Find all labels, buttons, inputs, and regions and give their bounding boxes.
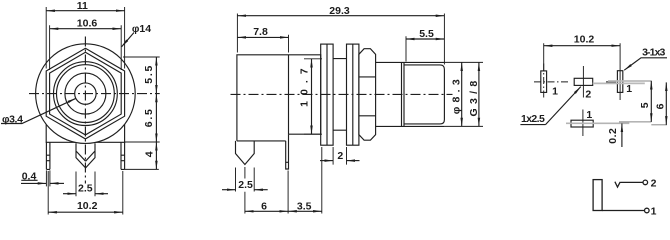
horizontal center line — [29, 93, 160, 95]
vertical center line — [84, 37, 86, 184]
leader line φ3.4 — [1, 98, 76, 123]
dimension 7.8 line — [237, 36, 288, 38]
dimension 2.5 arrows (front) — [63, 193, 76, 195]
right chain extension y=57 — [123, 56, 160, 58]
dimension 6 line (pcb) — [665, 82, 667, 124]
svg-text:2.5: 2.5 — [238, 179, 253, 191]
svg-text:2.5: 2.5 — [78, 183, 93, 195]
middle pin (front view) — [76, 143, 95, 168]
pcb middle slot vertical center line — [582, 66, 584, 98]
right pin (front view) — [121, 142, 125, 169]
pcb right slot — [617, 71, 622, 93]
leader 1x2.5 shelf — [520, 124, 545, 126]
bushing circle — [57, 65, 115, 123]
svg-text:φ8.3: φ8.3 — [450, 75, 462, 114]
flange plate B — [347, 44, 359, 145]
dimension 5.5 line (right chain) — [155, 57, 157, 94]
side view center line — [231, 93, 453, 95]
dimension 5.5 line (side) — [406, 38, 444, 40]
svg-text:7.8: 7.8 — [253, 26, 268, 38]
dimension 11 line — [46, 10, 124, 12]
threaded bushing shank — [376, 62, 444, 126]
svg-text:1x2.5: 1x2.5 — [521, 113, 545, 125]
svg-text:3-1x3: 3-1x3 — [642, 47, 665, 59]
svg-text:10.6: 10.6 — [77, 17, 98, 29]
dimension 0.4 extension lines — [46, 170, 50, 186]
right chain extension y=169.4 — [125, 168, 159, 170]
dimension 2.5 arrows (side) — [222, 189, 236, 191]
svg-text:11: 11 — [77, 0, 88, 12]
dimension 10.7 line — [311, 59, 313, 134]
dimension 0.4 leader shelf — [21, 179, 37, 181]
pad reference line D (lower slot center) — [566, 122, 629, 124]
dimension 4 line (right chain) — [155, 142, 157, 169]
jack schematic sleeve — [593, 180, 602, 211]
washer circle — [54, 62, 118, 126]
dimension 6 and 3.5 extension lines — [245, 147, 322, 214]
pcb lower slot — [571, 120, 593, 127]
dimension 7.8 extension line right — [288, 35, 290, 53]
svg-text:5.5: 5.5 — [419, 28, 434, 40]
flange plate B middle line — [352, 44, 354, 145]
leader line φ14 — [122, 33, 134, 47]
dimension 10.6 extension lines — [50, 25, 122, 70]
svg-text:0.4: 0.4 — [22, 171, 37, 183]
pcb middle slot — [574, 78, 593, 85]
dimension 2.5 extension lines (front) — [76, 172, 95, 197]
dimension 6.5 line (right chain) — [155, 94, 157, 142]
svg-text:φ14: φ14 — [132, 23, 151, 35]
svg-text:2: 2 — [585, 89, 591, 101]
svg-text:2: 2 — [651, 177, 657, 189]
pcb left slot center lines — [534, 64, 568, 100]
outer circle φ14 — [36, 44, 136, 144]
barrel circle — [65, 73, 106, 114]
pad reference line B (middle slot center) — [593, 82, 645, 84]
pcb right slot center line stub — [606, 71, 620, 100]
hex nut outline (front view) — [46, 48, 124, 139]
side view pin 2 (flat) — [286, 134, 289, 169]
svg-text:5.5: 5.5 — [143, 64, 155, 84]
flange plate A — [321, 44, 333, 145]
dimension 2 extension lines (groove) — [333, 147, 346, 165]
leader 3-1x3 — [624, 58, 667, 70]
pcb left slot — [541, 71, 547, 93]
jack schematic terminal 1 — [645, 208, 650, 213]
svg-text:3.5: 3.5 — [297, 200, 312, 212]
dimension 5 line (pcb) — [650, 81, 652, 122]
svg-text:2: 2 — [337, 150, 343, 162]
dimension G3/8 line — [478, 62, 480, 126]
dimension 0.4 arrows — [21, 182, 46, 184]
threaded section — [404, 65, 444, 124]
jack schematic terminal 2 — [643, 180, 648, 185]
dimension 6 line — [245, 210, 288, 212]
pcb lower slot vertical center line — [582, 110, 584, 137]
dimension 3.5 line — [288, 210, 322, 212]
svg-text:6.5: 6.5 — [143, 107, 155, 127]
groove barrel between plates — [333, 59, 346, 131]
leader 1x2.5 — [546, 87, 581, 125]
dimension 2.5 extension lines (side) — [236, 168, 255, 192]
dimension 10.6 line — [50, 28, 122, 30]
svg-text:1: 1 — [586, 109, 592, 121]
dimension 2 arrows — [320, 160, 333, 162]
dimension 0.2 line (pcb) — [621, 123, 623, 147]
svg-text:4: 4 — [144, 151, 156, 157]
svg-text:1: 1 — [552, 86, 558, 98]
svg-text:10.2: 10.2 — [77, 200, 98, 212]
dimension 10.2 extension lines (pcb) — [544, 43, 620, 71]
hex nut (side view) — [359, 49, 376, 141]
dimension 10.2 line (pcb) — [544, 45, 620, 47]
dimension 29.3 line — [237, 15, 444, 17]
jack schematic contact 2 wire — [620, 181, 643, 183]
dimension φ8.3 line — [461, 62, 463, 126]
svg-text:6: 6 — [654, 103, 666, 109]
dimension 29.3 extension lines — [237, 14, 444, 65]
front view base block behind circle — [46, 124, 124, 143]
side view pin 1 (pointed) — [236, 141, 255, 165]
dimension 10.7 extension lines — [304, 59, 322, 134]
jack schematic tip contact V — [615, 182, 620, 187]
svg-text:φ3.4: φ3.4 — [2, 113, 23, 125]
dimension 10.2 line (front) — [48, 211, 123, 213]
hex nut facet lines — [359, 77, 376, 116]
flange plate A middle line — [326, 44, 328, 145]
svg-text:10.7: 10.7 — [299, 62, 311, 106]
svg-text:5: 5 — [639, 102, 651, 108]
right chain extension y=142 — [125, 141, 160, 143]
svg-text:G3/8: G3/8 — [468, 77, 480, 117]
side view body internal vertical line — [288, 55, 290, 134]
jack schematic contact 1 wire — [602, 210, 644, 212]
dimension 10.2 extension lines (front) — [48, 171, 123, 215]
pad reference line A — [608, 80, 651, 82]
svg-text:1: 1 — [626, 83, 632, 95]
reference line C2 — [651, 124, 667, 126]
left pin (front view) — [46, 142, 50, 169]
svg-text:1: 1 — [651, 205, 657, 216]
side view body — [237, 55, 321, 141]
center hole φ3.4 — [75, 83, 96, 104]
reference line C — [619, 121, 651, 123]
dimension φ8.3 and G3/8 extension lines — [444, 62, 483, 126]
svg-text:10.2: 10.2 — [574, 34, 595, 46]
dimension 11 extension lines — [46, 7, 124, 69]
nut chamfer hexagon — [50, 52, 122, 135]
svg-text:29.3: 29.3 — [329, 5, 350, 17]
svg-text:6: 6 — [261, 200, 267, 212]
dimension 5.5 extension line left (side) — [405, 36, 407, 61]
svg-text:0.2: 0.2 — [607, 128, 619, 144]
